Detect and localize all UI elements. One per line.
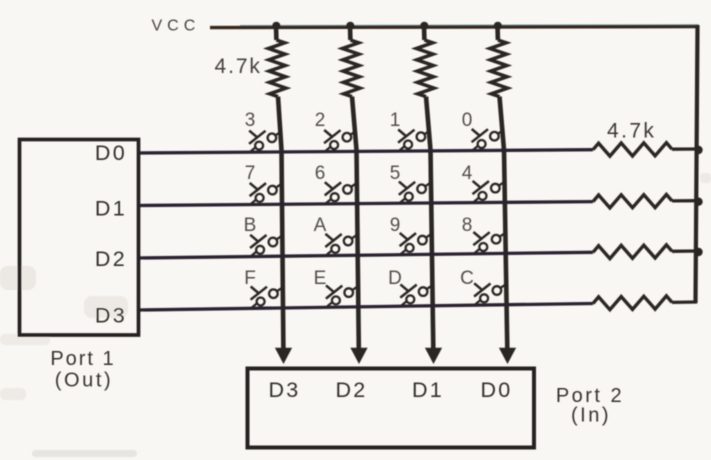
wire row D0 from Port 1 <box>138 150 593 153</box>
pin label D3 (Port 1) <box>95 304 127 328</box>
svg-text:VCC: VCC <box>152 18 201 35</box>
switch 5 (row D1, column 3) <box>399 182 431 203</box>
key label 2 <box>315 110 326 131</box>
svg-text:2: 2 <box>315 110 326 131</box>
key label D <box>388 268 402 289</box>
key label 0 <box>462 110 473 131</box>
resistor 4.7k row D3 <box>593 296 672 310</box>
junction column 3 / VCC wire <box>420 22 428 30</box>
key label 8 <box>462 215 473 236</box>
svg-text:(In): (In) <box>571 405 611 427</box>
wire column 2 upper stub <box>348 27 353 41</box>
wire row D0 to rail <box>672 147 697 150</box>
svg-text:1: 1 <box>390 110 401 131</box>
svg-text:B: B <box>244 215 257 236</box>
key label F <box>244 268 256 289</box>
net label VCC <box>152 18 201 35</box>
wire row D2 from Port 1 <box>138 252 593 258</box>
pin label D1 (Port 2) <box>412 378 444 402</box>
svg-text:6: 6 <box>315 163 326 184</box>
value label 4.7k (row resistors) <box>607 120 656 143</box>
svg-text:D1: D1 <box>95 197 127 221</box>
key label 7 <box>245 163 256 184</box>
resistor 4.7k pull-down column 4 <box>490 40 508 97</box>
svg-text:4.7k: 4.7k <box>215 55 262 78</box>
junction column 4 / VCC wire <box>494 22 502 30</box>
svg-text:D2: D2 <box>335 378 367 402</box>
scan background tint <box>0 173 711 457</box>
wire row D2 to rail <box>672 249 697 253</box>
pin label D0 (Port 2) <box>480 378 512 402</box>
svg-text:F: F <box>244 268 256 289</box>
svg-text:0: 0 <box>462 110 473 131</box>
pin label D2 (Port 1) <box>95 247 127 271</box>
switch 6 (row D1, column 2) <box>325 182 357 203</box>
svg-text:4.7k: 4.7k <box>607 120 656 143</box>
svg-text:A: A <box>314 215 327 236</box>
wire column 1 upper stub <box>274 27 279 41</box>
Port 1 (Out) box <box>20 140 139 336</box>
pin label D0 (Port 1) <box>95 141 127 165</box>
resistor 4.7k pull-down column 1 <box>268 40 286 97</box>
switch 8 (row D2, column 4) <box>473 232 505 253</box>
switch D (row D3, column 3) <box>400 284 432 305</box>
switch 0 (row D0, column 4) <box>472 129 504 150</box>
Port 2 (In) box <box>248 369 535 448</box>
svg-text:Port 1: Port 1 <box>50 348 115 370</box>
switch C (row D3, column 4) <box>474 283 506 304</box>
resistor 4.7k pull-down column 3 <box>416 40 434 97</box>
wire column 2 to Port 2 (arrow) <box>350 97 367 364</box>
svg-text:9: 9 <box>390 215 401 236</box>
switch A (row D2, column 2) <box>325 234 357 255</box>
svg-text:(Out): (Out) <box>55 370 114 392</box>
key label A <box>314 215 327 236</box>
resistor 4.7k row D2 <box>593 245 672 259</box>
wire row D3 from Port 1 <box>138 304 593 311</box>
wire row D1 to rail <box>672 199 697 202</box>
value label 4.7k (column pull-ups) <box>215 55 262 78</box>
junction column 1 / VCC wire <box>272 22 280 30</box>
junction row D1 / right rail <box>694 198 702 206</box>
switch F (row D3, column 1) <box>251 287 283 308</box>
wire column 4 upper stub <box>495 27 500 41</box>
pin label D1 (Port 1) <box>95 197 127 221</box>
pin label D3 (Port 2) <box>268 378 300 402</box>
svg-text:D2: D2 <box>95 247 127 271</box>
junction row D0 / right rail <box>694 146 702 154</box>
junction row D2 / right rail <box>694 248 702 256</box>
wire column 1 to Port 2 (arrow) <box>275 97 292 364</box>
label Port 1 (Out) <box>50 348 115 392</box>
key label 1 <box>390 110 401 131</box>
wire column 3 to Port 2 (arrow) <box>425 97 442 364</box>
switch 2 (row D0, column 2) <box>324 130 356 151</box>
key label 4 <box>462 163 473 184</box>
key label 3 <box>245 110 256 131</box>
pin label D2 (Port 2) <box>335 378 367 402</box>
svg-text:4: 4 <box>462 163 473 184</box>
label Port 2 (In) <box>556 385 624 427</box>
key label 6 <box>315 163 326 184</box>
switch 9 (row D2, column 3) <box>400 233 432 254</box>
switch 1 (row D0, column 3) <box>398 130 430 151</box>
switch E (row D3, column 2) <box>326 285 358 306</box>
svg-text:5: 5 <box>390 163 401 184</box>
switch 4 (row D1, column 4) <box>473 181 505 202</box>
svg-text:D1: D1 <box>412 378 444 402</box>
key label E <box>314 268 327 289</box>
switch 7 (row D1, column 1) <box>250 183 282 204</box>
svg-text:D0: D0 <box>480 378 512 402</box>
svg-text:3: 3 <box>245 110 256 131</box>
key label 9 <box>390 215 401 236</box>
key label B <box>244 215 257 236</box>
switch B (row D2, column 1) <box>250 235 282 256</box>
resistor 4.7k pull-down column 2 <box>342 40 360 97</box>
key label 5 <box>390 163 401 184</box>
resistor 4.7k row D1 <box>593 195 672 208</box>
svg-text:D3: D3 <box>268 378 300 402</box>
svg-text:D3: D3 <box>95 304 127 328</box>
svg-text:7: 7 <box>245 163 256 184</box>
wire column 4 to Port 2 (arrow) <box>499 97 516 364</box>
svg-text:D: D <box>388 268 402 289</box>
wire column 3 upper stub <box>422 27 427 41</box>
svg-text:8: 8 <box>462 215 473 236</box>
svg-text:C: C <box>460 268 474 289</box>
junction column 2 / VCC wire <box>346 22 354 30</box>
resistor 4.7k row D0 <box>593 143 672 156</box>
wire row D1 from Port 1 <box>138 202 593 206</box>
key label C <box>460 268 474 289</box>
switch 3 (row D0, column 1) <box>249 131 281 152</box>
svg-text:E: E <box>314 268 327 289</box>
wire right VCC rail <box>696 25 698 303</box>
wire row D3 to rail <box>672 300 697 304</box>
svg-text:D0: D0 <box>95 141 127 165</box>
wire VCC top rail <box>210 25 699 28</box>
